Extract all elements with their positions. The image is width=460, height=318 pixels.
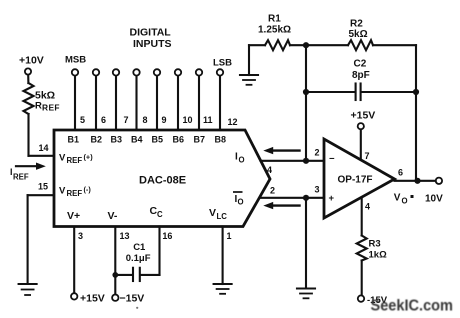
svg-text:3: 3 bbox=[78, 231, 83, 241]
svg-text:5kΩ: 5kΩ bbox=[349, 29, 368, 40]
svg-text:1.25kΩ: 1.25kΩ bbox=[258, 25, 291, 36]
svg-text:O: O bbox=[239, 156, 245, 165]
svg-text:V-: V- bbox=[108, 210, 118, 222]
svg-text:O: O bbox=[238, 198, 244, 207]
svg-text:C: C bbox=[157, 210, 163, 219]
svg-text:2: 2 bbox=[315, 148, 320, 158]
svg-text:7: 7 bbox=[124, 115, 129, 125]
svg-text:−15V: −15V bbox=[120, 293, 145, 305]
svg-text:9: 9 bbox=[162, 115, 167, 125]
svg-text:2: 2 bbox=[270, 186, 275, 196]
svg-text:8pF: 8pF bbox=[352, 70, 370, 81]
svg-text:O: O bbox=[402, 197, 408, 206]
svg-text:3: 3 bbox=[315, 185, 320, 195]
svg-text:(+): (+) bbox=[84, 153, 94, 162]
svg-text:R3: R3 bbox=[369, 239, 381, 250]
svg-text:8: 8 bbox=[143, 115, 148, 125]
svg-text:B2: B2 bbox=[91, 135, 103, 145]
svg-text:MSB: MSB bbox=[65, 55, 86, 66]
svg-text:V: V bbox=[209, 207, 216, 219]
svg-text:R: R bbox=[35, 101, 42, 112]
svg-text:6: 6 bbox=[101, 115, 106, 125]
svg-text:(-): (-) bbox=[84, 185, 92, 194]
svg-text:14: 14 bbox=[39, 143, 49, 153]
svg-text:C2: C2 bbox=[354, 59, 367, 70]
svg-text:OP-17F: OP-17F bbox=[338, 175, 373, 186]
svg-text:B4: B4 bbox=[131, 135, 143, 145]
svg-text:SeekIC.com: SeekIC.com bbox=[371, 298, 454, 315]
svg-text:+15V: +15V bbox=[80, 293, 105, 305]
svg-text:B7: B7 bbox=[194, 135, 206, 145]
svg-text:10V: 10V bbox=[425, 194, 443, 205]
svg-text:1kΩ: 1kΩ bbox=[369, 250, 388, 261]
svg-text:V: V bbox=[59, 186, 66, 197]
svg-text:16: 16 bbox=[162, 231, 172, 241]
svg-text:REF: REF bbox=[42, 103, 60, 113]
svg-text:REF: REF bbox=[67, 156, 83, 165]
svg-text:R1: R1 bbox=[268, 14, 281, 25]
svg-text:6: 6 bbox=[398, 168, 403, 178]
svg-text:−: − bbox=[329, 154, 335, 165]
svg-text:B8: B8 bbox=[215, 135, 227, 145]
svg-text:10: 10 bbox=[183, 115, 193, 125]
svg-text:V: V bbox=[394, 193, 401, 204]
svg-text:V+: V+ bbox=[67, 210, 80, 222]
svg-text:C1: C1 bbox=[133, 242, 146, 253]
svg-text:+: + bbox=[329, 193, 335, 204]
svg-text:R2: R2 bbox=[350, 19, 363, 30]
svg-text:4: 4 bbox=[267, 165, 272, 175]
svg-text:B6: B6 bbox=[173, 135, 185, 145]
svg-text:DIGITAL: DIGITAL bbox=[130, 27, 172, 39]
svg-text:+10V: +10V bbox=[19, 55, 44, 67]
svg-text:LSB: LSB bbox=[213, 58, 232, 69]
svg-text:REF: REF bbox=[67, 189, 83, 198]
svg-text:13: 13 bbox=[120, 231, 130, 241]
svg-text:0.1μF: 0.1μF bbox=[126, 253, 151, 264]
svg-text:+15V: +15V bbox=[351, 110, 376, 122]
svg-text:4: 4 bbox=[365, 202, 370, 212]
svg-text:15: 15 bbox=[38, 182, 48, 192]
svg-text:7: 7 bbox=[365, 151, 370, 161]
svg-text:11: 11 bbox=[203, 115, 213, 125]
svg-text:B3: B3 bbox=[111, 135, 123, 145]
svg-text:REF: REF bbox=[13, 173, 29, 182]
svg-text:DAC-08E: DAC-08E bbox=[139, 175, 186, 187]
svg-text:B1: B1 bbox=[68, 135, 80, 145]
svg-text:12: 12 bbox=[228, 117, 238, 127]
svg-text:1: 1 bbox=[227, 231, 232, 241]
svg-text:B5: B5 bbox=[152, 135, 164, 145]
svg-text:V: V bbox=[59, 153, 66, 164]
svg-text:LC: LC bbox=[217, 212, 228, 221]
svg-text:5: 5 bbox=[80, 115, 85, 125]
svg-text:INPUTS: INPUTS bbox=[133, 38, 172, 50]
